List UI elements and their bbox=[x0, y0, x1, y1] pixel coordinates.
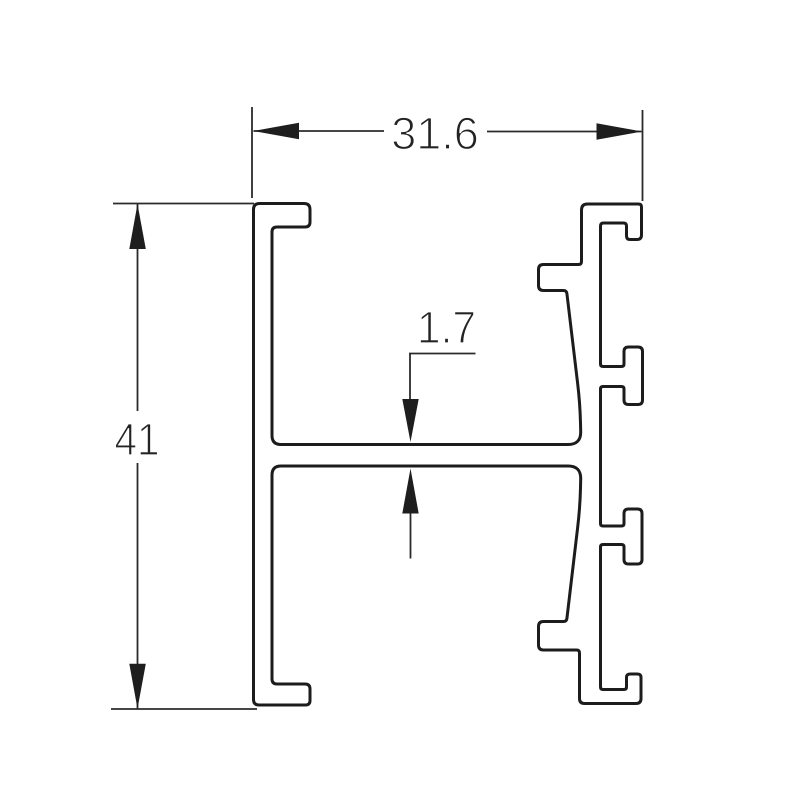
width dimension right arrowhead bbox=[597, 123, 643, 140]
width dimension left arrowhead bbox=[253, 123, 299, 140]
width dimension: right extension line bbox=[642, 110, 644, 201]
web thickness leader: horizontal shelf bbox=[409, 353, 476, 355]
height dimension: top extension line bbox=[113, 203, 254, 205]
height dimension bottom arrowhead bbox=[129, 664, 146, 709]
web thickness lower arrow tail bbox=[410, 514, 412, 559]
web thickness lower arrowhead (points up to web bottom) bbox=[402, 469, 418, 514]
extrusion profile outline bbox=[254, 204, 643, 706]
svg-text:31.6: 31.6 bbox=[391, 108, 479, 159]
height dimension top arrowhead bbox=[129, 204, 146, 249]
svg-text:41: 41 bbox=[114, 415, 159, 465]
height dimension line (lower segment) bbox=[137, 463, 139, 709]
height dimension line (upper segment) bbox=[137, 204, 139, 411]
web thickness leader: vertical drop bbox=[409, 354, 411, 401]
height dimension: bottom extension line bbox=[111, 708, 257, 710]
web thickness upper arrowhead (points down to web top) bbox=[402, 399, 418, 442]
svg-text:1.7: 1.7 bbox=[417, 303, 476, 353]
width dimension line (right segment) bbox=[487, 131, 642, 133]
width dimension line (left segment) bbox=[254, 130, 385, 132]
width dimension: left extension line bbox=[251, 107, 253, 198]
